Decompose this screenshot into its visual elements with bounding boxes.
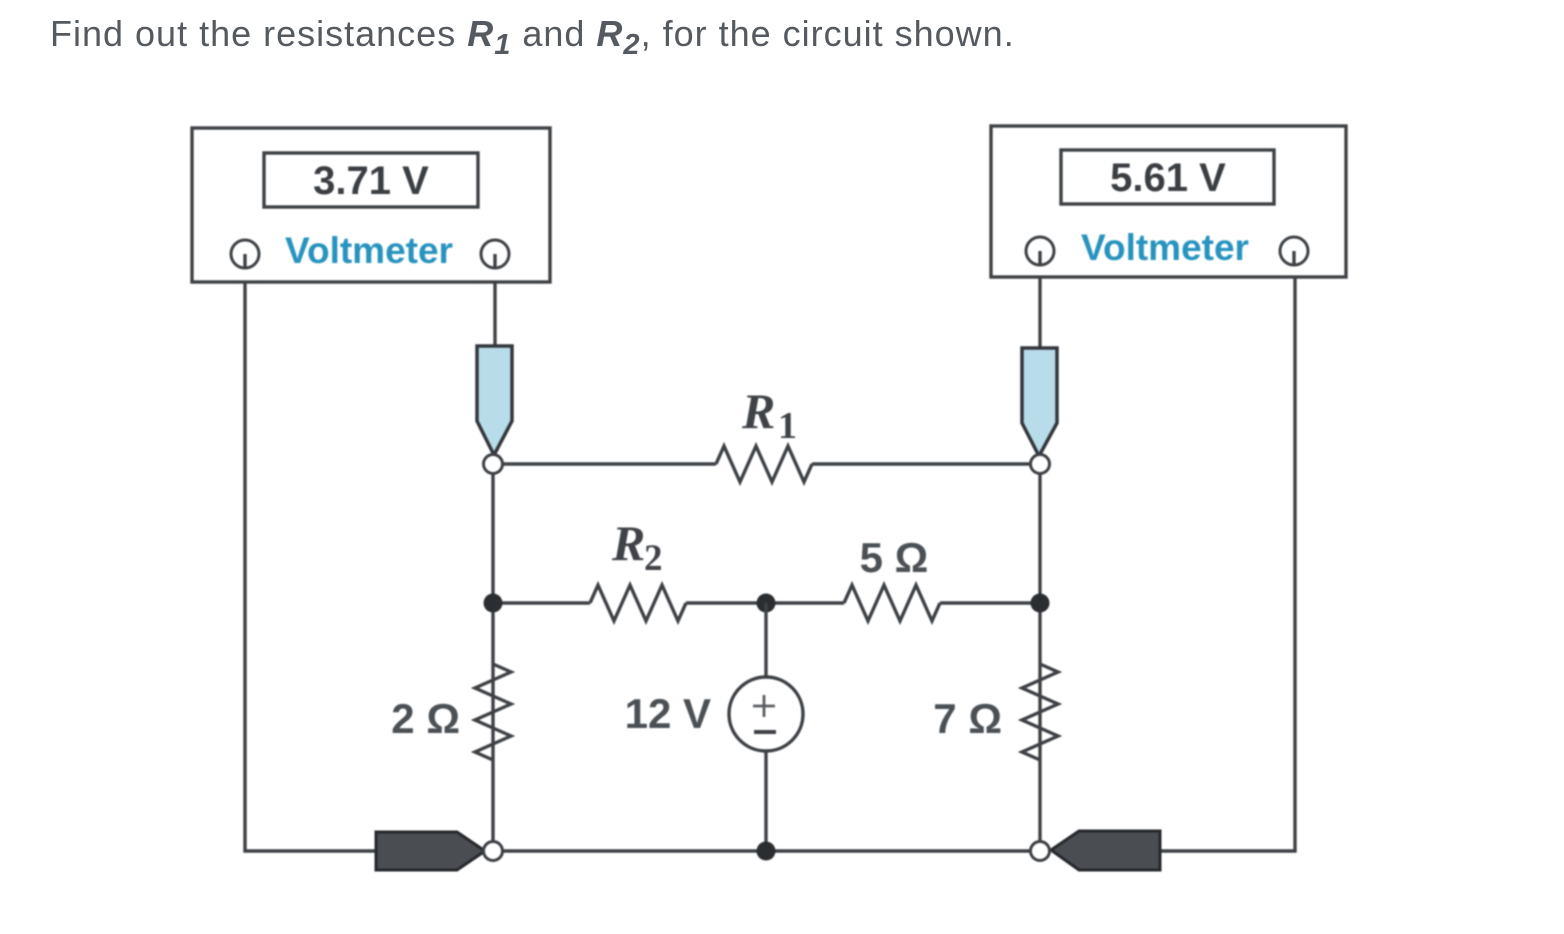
svg-text:5 Ω: 5 Ω <box>860 534 929 581</box>
node C (bottom left, open) <box>484 842 503 861</box>
wire: right inner vertical (node B down to bottom node) <box>1038 464 1041 851</box>
wire: V1 right terminal down to probe P1 <box>493 255 496 352</box>
probe P1 (light blue, left) <box>477 346 512 455</box>
wire: center column from center junction down to source <box>764 603 767 680</box>
wire: middle row center junction to 5 ohm <box>766 601 844 604</box>
wire: V2 left terminal down to probe P2 <box>1038 252 1041 354</box>
svg-text:7 Ω: 7 Ω <box>933 695 1002 742</box>
probe P2 (light blue, right) <box>1022 348 1057 456</box>
junction dot bottom-center <box>757 842 776 861</box>
wire: top row from R1 to node B <box>812 462 1040 465</box>
wire: middle row R2 to center junction <box>686 601 766 604</box>
wire: left outer (V1 left terminal down and along bottom to black probe) <box>245 255 380 851</box>
voltmeter V1 box <box>192 128 550 282</box>
resistor 2 ohm (vertical) <box>475 664 511 760</box>
svg-text:12 V: 12 V <box>625 690 711 737</box>
voltmeter V2 box <box>991 126 1346 277</box>
resistor R2 <box>590 585 686 621</box>
wire: right outer (from black probe right along bottom and up to V2 right terminal) <box>1155 252 1295 851</box>
resistor R1 <box>716 446 812 482</box>
svg-text:2 Ω: 2 Ω <box>391 695 460 742</box>
svg-text:R: R <box>741 383 775 439</box>
junction dot middle-right <box>1031 594 1050 613</box>
node B (right top, open) <box>1031 455 1050 474</box>
voltmeter V1 display <box>264 153 478 207</box>
voltmeter V1 right terminal <box>481 240 509 268</box>
probe P3 (dark, bottom left) <box>376 832 485 870</box>
svg-text:Voltmeter: Voltmeter <box>1081 227 1249 268</box>
wire: top row from node A to R1 <box>493 462 716 465</box>
svg-text:3.71 V: 3.71 V <box>313 159 429 203</box>
resistor 7 ohm (vertical) <box>1022 664 1058 760</box>
voltmeter V1 left terminal <box>231 240 259 268</box>
wire: center column from source down to bottom junction <box>764 748 767 851</box>
voltmeter V2 display <box>1061 150 1274 204</box>
probe P4 (dark, bottom right) <box>1051 831 1160 870</box>
junction dot middle-left <box>484 594 503 613</box>
node D (bottom right, open) <box>1031 842 1050 861</box>
svg-text:2: 2 <box>644 538 663 579</box>
junction dot middle-center <box>757 594 776 613</box>
svg-text:5.61 V: 5.61 V <box>1110 156 1226 200</box>
source plus sign <box>753 705 775 708</box>
svg-text:Find out the resistances R1 an: Find out the resistances R1 and R2, for … <box>50 13 1015 61</box>
svg-text:1: 1 <box>778 405 797 447</box>
source V3 (12 V) <box>729 677 803 751</box>
wire: bottom row <box>493 849 1040 852</box>
svg-text:R: R <box>611 515 645 571</box>
wire: left inner vertical (node A down to bottom node) <box>491 464 494 851</box>
source minus sign <box>754 730 776 734</box>
voltmeter V2 left terminal <box>1026 237 1054 265</box>
resistor 5 ohm <box>844 585 940 621</box>
svg-text:Voltmeter: Voltmeter <box>285 230 453 271</box>
node A (left top, open) <box>484 455 503 474</box>
wire: middle row left junction to R2 <box>493 601 590 604</box>
voltmeter V2 right terminal <box>1280 237 1308 265</box>
wire: middle row 5 ohm to right junction <box>940 601 1040 604</box>
